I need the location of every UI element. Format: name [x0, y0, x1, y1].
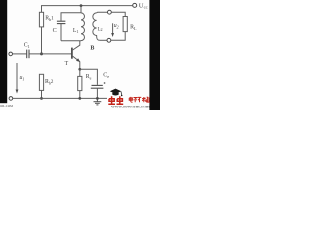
capacitor C plates	[57, 21, 66, 23]
terminal Ucc	[133, 3, 137, 7]
tank bottom wire	[61, 40, 81, 42]
transistor T collector lead	[72, 41, 80, 51]
wire tank top link to rail	[80, 6, 82, 13]
svg-text:OOL.COM: OOL.COM	[0, 104, 13, 108]
watermark text chongchong	[108, 96, 123, 104]
watermark url	[111, 105, 150, 109]
resistor Rb1	[39, 12, 43, 27]
capacitor Ce plates	[91, 85, 104, 88]
label B	[90, 45, 94, 51]
svg-text:Rb1: Rb1	[45, 16, 54, 22]
svg-text:RL: RL	[130, 25, 137, 31]
transistor T emitter arrowhead	[76, 58, 80, 62]
label T	[65, 61, 69, 67]
ground	[94, 98, 102, 105]
node base junction dot	[40, 52, 43, 55]
label C1	[24, 43, 30, 49]
node ground junction dot	[96, 97, 99, 100]
wire bottom ground rail	[13, 97, 107, 99]
svg-text:u2: u2	[114, 23, 119, 29]
capacitor Ce polarity plus	[104, 82, 106, 84]
label L1	[73, 28, 79, 34]
transistor T emitter lead	[72, 56, 80, 70]
svg-text:Ucc: Ucc	[139, 3, 148, 10]
wire C bottom	[60, 24, 62, 41]
wire output bottom to RL	[111, 32, 125, 41]
watermark logo graduation cap	[110, 89, 123, 97]
terminal output bottom	[107, 38, 111, 42]
label u1	[20, 75, 25, 81]
arrow u2 output voltage	[111, 23, 114, 37]
wire L2 top to output terminal	[97, 11, 108, 14]
wire emitter to Ce branch	[80, 69, 98, 85]
inductor L1	[81, 13, 84, 41]
node junction dot tank-to-rail	[80, 4, 83, 7]
label Ce	[103, 73, 109, 79]
svg-text:C: C	[53, 27, 57, 34]
wire L2 bottom to output terminal	[100, 39, 107, 41]
svg-text:Rb2: Rb2	[45, 79, 54, 85]
inductor L2	[93, 13, 100, 40]
wire output top to RL	[111, 12, 125, 16]
svg-text:Re: Re	[86, 74, 92, 80]
wire Re bottom to rail	[79, 91, 81, 99]
node Re rail dot	[78, 97, 81, 100]
label Re	[86, 74, 92, 80]
label Ucc supply	[139, 3, 148, 10]
label RL	[130, 25, 137, 31]
label u2	[114, 23, 119, 29]
capacitor C1	[27, 50, 29, 59]
tank top wire	[61, 13, 81, 21]
node R2 rail dot	[40, 97, 43, 100]
svg-text:C1: C1	[24, 43, 30, 49]
wire R2 bottom to ground rail	[41, 90, 43, 98]
wire Ce bottom to rail	[96, 88, 98, 98]
svg-text:T: T	[65, 61, 69, 67]
terminal input top	[9, 52, 13, 56]
svg-text:L2: L2	[98, 27, 103, 32]
wire C1 to base node to transistor base	[29, 53, 71, 55]
svg-text:L1: L1	[73, 28, 79, 34]
watermark text dianzi xiazai zhan	[129, 97, 150, 102]
svg-text:Ce: Ce	[103, 73, 109, 79]
arrow u1 input voltage	[16, 63, 19, 94]
resistor Rb2	[39, 74, 43, 90]
wire top supply rail	[42, 6, 133, 13]
node emitter junction dot	[78, 68, 81, 71]
label Rb1	[45, 16, 54, 22]
terminal input bottom	[9, 97, 13, 101]
svg-text:u1: u1	[20, 75, 25, 81]
wire input to C1	[13, 53, 27, 55]
wire emitter to Re	[79, 69, 81, 76]
resistor RL	[123, 17, 127, 32]
label Rb2	[45, 79, 54, 85]
label L2	[98, 27, 103, 32]
wire R1 bottom to base node	[41, 27, 43, 54]
svg-text:B: B	[90, 45, 94, 51]
svg-text:www.eeworm.com: www.eeworm.com	[111, 105, 150, 109]
terminal output top	[108, 10, 112, 14]
resistor Re	[78, 76, 82, 90]
transistor T base bar	[71, 48, 73, 59]
label C	[53, 27, 57, 34]
